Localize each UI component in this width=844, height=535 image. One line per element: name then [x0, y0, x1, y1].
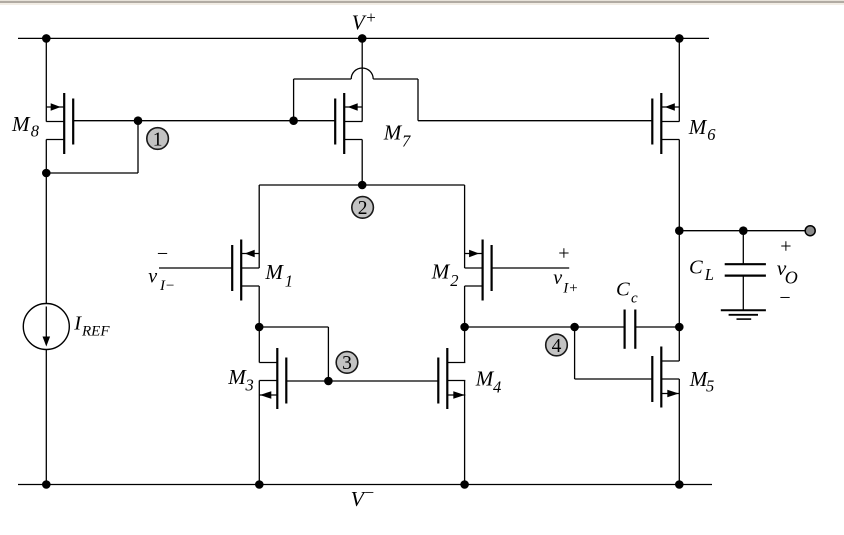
junction gate bus / M7 gate: [289, 116, 298, 125]
wire M4 drain up: [464, 327, 466, 363]
wire output row: [679, 230, 805, 232]
svg-text:M: M: [431, 260, 451, 284]
node 1: [147, 128, 169, 151]
svg-text:c: c: [631, 290, 638, 306]
wire M7 source to V+: [361, 38, 363, 121]
wire M5 source to V-: [678, 379, 680, 485]
svg-text:M: M: [11, 112, 31, 136]
wire M1 source up: [258, 185, 260, 268]
wire node3 top row: [259, 326, 328, 328]
junction V- / M3 source: [255, 480, 264, 489]
ground: [721, 310, 766, 319]
junction node 3 riser / gate row: [324, 377, 333, 386]
svg-text:REF: REF: [81, 324, 110, 340]
svg-text:7: 7: [402, 131, 411, 150]
wire M3 drain up: [258, 327, 260, 363]
wire M6 source to V+: [678, 38, 680, 121]
wire M1 gate lead: [159, 267, 232, 269]
transistor M4: [438, 348, 465, 409]
capacitor Cc: [625, 310, 636, 349]
wire M2 drain down: [464, 286, 466, 327]
wire riser to top jog: [293, 79, 295, 121]
capacitor CL: [725, 264, 766, 275]
wire hop over M7 source: [351, 68, 373, 79]
svg-text:O: O: [785, 267, 798, 287]
wire top jog left segment: [294, 78, 352, 80]
svg-text:M: M: [475, 366, 495, 390]
svg-text:1: 1: [153, 129, 163, 150]
junction V- / M4 source: [460, 480, 469, 489]
svg-text:−: −: [157, 243, 168, 265]
wire M3 source to V-: [258, 381, 260, 485]
transistor M5: [652, 347, 679, 408]
junction M8 drain / gate tie: [42, 169, 51, 178]
svg-text:3: 3: [245, 376, 254, 395]
wire V+ rail: [18, 37, 709, 39]
wire M4 source to V-: [464, 381, 466, 485]
junction output / Cc: [675, 323, 684, 332]
svg-text:v: v: [553, 267, 562, 289]
svg-text:I+: I+: [562, 281, 578, 297]
transistor M3: [259, 348, 286, 409]
svg-text:3: 3: [342, 353, 352, 374]
wire node1 gate bus M8-M7: [73, 120, 335, 122]
wire M6 drain to M5 drain: [678, 140, 680, 362]
junction output node: [675, 226, 684, 235]
wire V- rail: [18, 484, 712, 486]
wire M1 drain down: [258, 286, 260, 327]
transistor M1: [232, 240, 259, 301]
wire M8 drain down to IREF: [45, 140, 47, 304]
svg-text:L: L: [704, 265, 714, 284]
wire M2 source up: [464, 185, 466, 268]
junction V- / M5 source: [675, 480, 684, 489]
wire M5 gate riser: [574, 327, 576, 379]
transistor M2: [465, 240, 492, 301]
transistor M6: [652, 93, 679, 154]
current source IREF: [23, 304, 69, 350]
node 4: [546, 334, 568, 357]
wire node2 row: [259, 184, 464, 186]
wire gate bus to M6: [418, 120, 652, 122]
svg-text:4: 4: [552, 336, 562, 357]
wire M3-M4 gate row: [286, 380, 437, 382]
svg-text:4: 4: [493, 377, 501, 396]
svg-text:V: V: [352, 10, 367, 34]
svg-text:+: +: [366, 8, 376, 27]
svg-text:M: M: [383, 121, 403, 145]
junction M2 drain / M4 drain: [460, 323, 469, 332]
svg-text:6: 6: [707, 125, 716, 144]
wire IREF to V-: [45, 350, 47, 485]
svg-text:C: C: [689, 257, 703, 279]
junction node 4 riser: [570, 323, 579, 332]
wire M2 gate lead: [492, 267, 570, 269]
junction V+ / M6 source: [675, 34, 684, 43]
wire M5 gate lead: [575, 378, 653, 380]
junction M1 drain / M3 drain: [255, 323, 264, 332]
svg-text:−: −: [365, 483, 375, 502]
node 3: [336, 352, 358, 375]
wire CL bottom lead: [742, 276, 744, 311]
svg-text:I−: I−: [159, 278, 175, 294]
svg-text:M: M: [227, 365, 247, 389]
svg-text:v: v: [148, 266, 157, 288]
node 2: [352, 197, 374, 220]
junction V- / IREF: [42, 480, 51, 489]
wire Cc to output: [635, 326, 679, 328]
svg-text:−: −: [779, 287, 790, 309]
wire node4 row to Cc: [465, 326, 625, 328]
wire CL top lead: [742, 231, 744, 265]
svg-text:M: M: [688, 115, 708, 139]
svg-text:C: C: [616, 279, 630, 301]
transistor M8: [46, 93, 73, 154]
svg-text:+: +: [558, 242, 569, 264]
junction V+ / M8 source: [42, 34, 51, 43]
wire node3 riser: [327, 327, 329, 381]
junction node 2: [358, 181, 367, 190]
wire M8 source to V+: [45, 38, 47, 121]
wire node1 riser: [137, 121, 139, 173]
junction V+ / M7 source: [358, 34, 367, 43]
svg-text:5: 5: [706, 377, 714, 396]
svg-text:2: 2: [450, 271, 458, 290]
svg-text:+: +: [780, 235, 791, 257]
junction CL top: [739, 226, 748, 235]
svg-text:1: 1: [285, 271, 293, 290]
wire node1 to M8 drain: [46, 172, 138, 174]
wire jog down riser: [417, 79, 419, 121]
junction node 1: [134, 116, 143, 125]
transistor M7: [335, 93, 362, 154]
wire M7 drain to node2: [361, 140, 363, 186]
svg-text:8: 8: [31, 122, 40, 141]
wire top jog right segment: [373, 78, 418, 80]
svg-text:M: M: [264, 260, 284, 284]
svg-text:I: I: [73, 313, 82, 335]
node vO output terminal: [805, 226, 815, 236]
svg-text:2: 2: [358, 198, 368, 219]
